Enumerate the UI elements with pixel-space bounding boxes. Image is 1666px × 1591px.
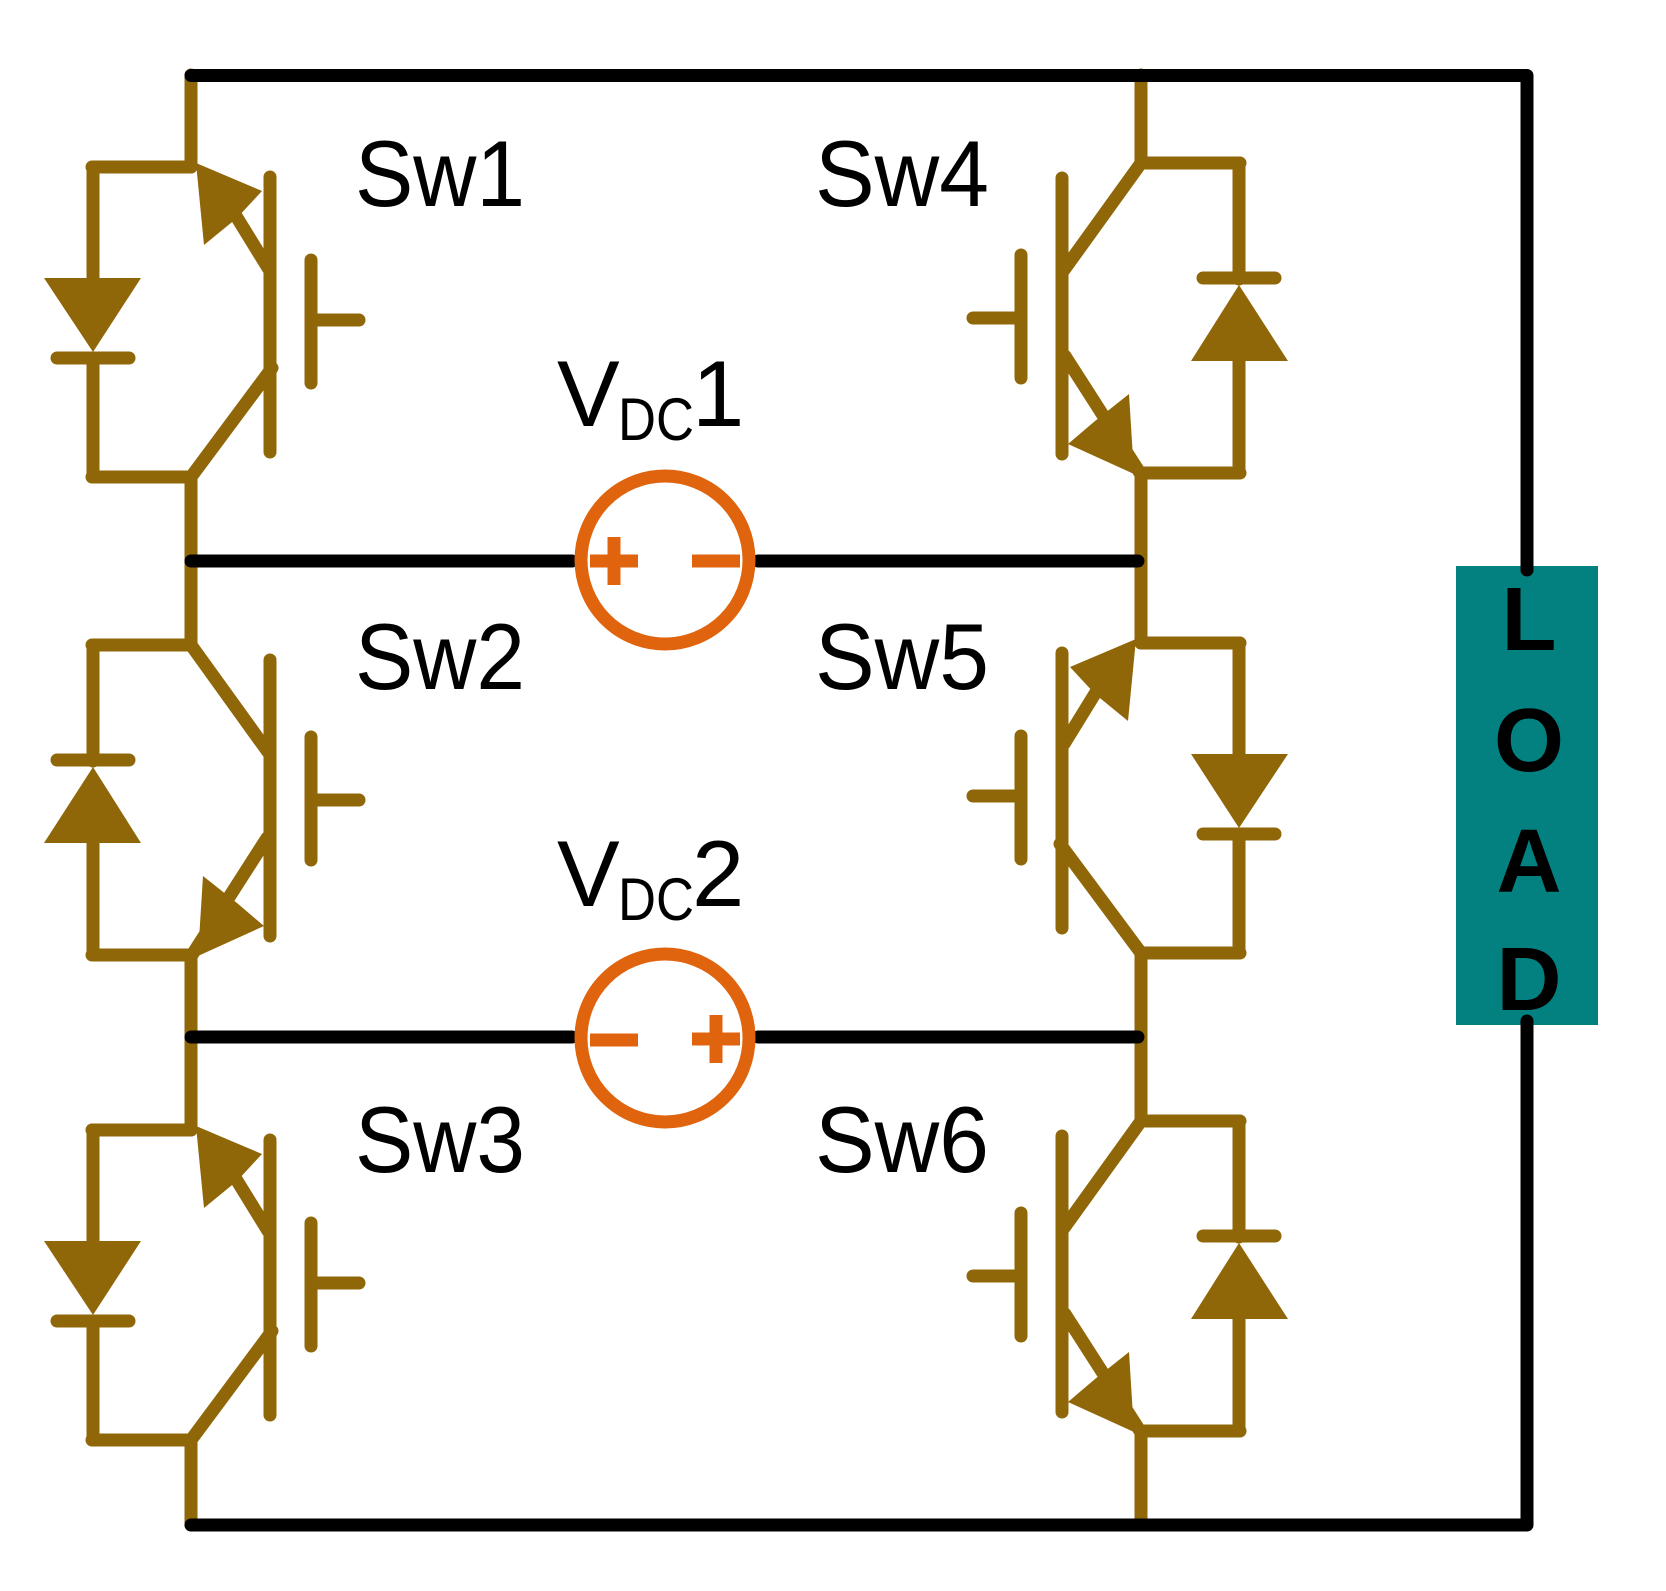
wire: bottom bus with right branch up to LOAD bbox=[191, 1021, 1527, 1525]
svg-text:Sw5: Sw5 bbox=[815, 604, 989, 709]
source VDC1 minus sign bbox=[692, 555, 740, 568]
source VDC2 plus sign bbox=[692, 1015, 740, 1063]
transistor Sw3 (IGBT with antiparallel diode) bbox=[44, 1126, 359, 1440]
svg-text:Sw3: Sw3 bbox=[355, 1087, 525, 1192]
svg-text:DC: DC bbox=[618, 866, 694, 933]
wire: left DC bus segment top bbox=[185, 75, 198, 167]
svg-text:D: D bbox=[1497, 930, 1562, 1030]
wire: left DC bus segment bottom bbox=[185, 1440, 198, 1525]
transistor Sw6 (IGBT with antiparallel diode) bbox=[973, 1121, 1288, 1432]
svg-text:V: V bbox=[557, 341, 620, 446]
source VDC2 circle bbox=[581, 954, 749, 1122]
transistor Sw5 (IGBT with antiparallel diode) bbox=[973, 639, 1288, 953]
svg-text:Sw2: Sw2 bbox=[355, 604, 525, 709]
svg-text:DC: DC bbox=[618, 386, 694, 453]
source VDC1 plus sign bbox=[590, 537, 638, 585]
transistor Sw4 (IGBT with antiparallel diode) bbox=[973, 163, 1288, 474]
svg-text:L: L bbox=[1502, 570, 1557, 670]
wire: right leg bus segment 2 bbox=[1135, 473, 1148, 643]
transistor Sw2 (IGBT with antiparallel diode) bbox=[44, 645, 359, 956]
svg-text:2: 2 bbox=[692, 821, 744, 926]
source VDC2 minus sign bbox=[590, 1034, 638, 1047]
wire: middle node A wire (VDC1 branch) bbox=[191, 555, 1138, 568]
wire: right leg bus segment 3 bbox=[1135, 953, 1148, 1121]
svg-text:Sw1: Sw1 bbox=[355, 121, 525, 226]
source VDC1 circle bbox=[581, 476, 749, 644]
wire: left DC bus segment 2 (node A crossing) bbox=[185, 477, 198, 645]
wire: left DC bus segment 3 (node B crossing) bbox=[185, 955, 198, 1130]
svg-text:Sw4: Sw4 bbox=[815, 121, 989, 226]
wire: top bus with right branch down to LOAD bbox=[191, 76, 1527, 571]
load LOAD box bbox=[1456, 566, 1598, 1025]
wire: right leg bus segment bottom bbox=[1135, 1431, 1148, 1525]
wire: right leg bus segment top bbox=[1135, 75, 1148, 163]
svg-text:O: O bbox=[1494, 691, 1564, 791]
svg-text:Sw6: Sw6 bbox=[815, 1087, 989, 1192]
svg-text:A: A bbox=[1497, 812, 1562, 912]
transistor Sw1 (IGBT with antiparallel diode) bbox=[44, 163, 359, 477]
wire: middle node B wire (VDC2 branch) bbox=[191, 1031, 1138, 1044]
svg-text:1: 1 bbox=[692, 341, 744, 446]
svg-text:V: V bbox=[557, 821, 620, 926]
